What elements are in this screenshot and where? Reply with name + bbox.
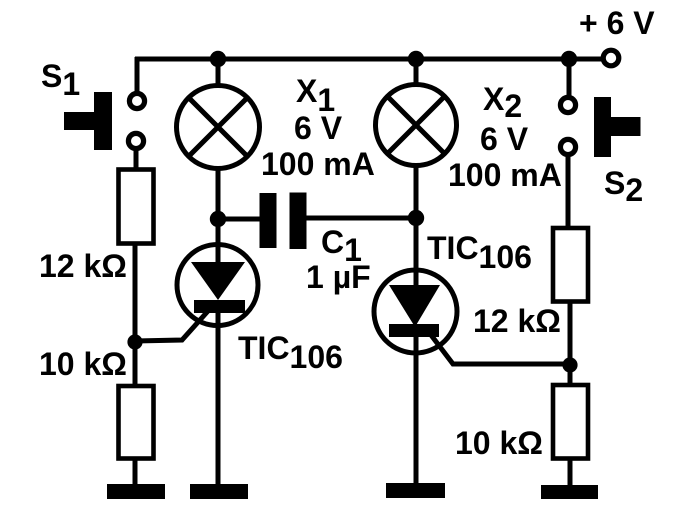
svg-text:12 kΩ: 12 kΩ <box>39 248 127 284</box>
svg-text:6 V: 6 V <box>480 121 529 157</box>
svg-text:10 kΩ: 10 kΩ <box>455 425 543 461</box>
svg-text:100 mA: 100 mA <box>448 157 562 193</box>
svg-text:6 V: 6 V <box>294 110 343 146</box>
svg-text:1 µF: 1 µF <box>306 259 371 295</box>
svg-text:10 kΩ: 10 kΩ <box>39 346 127 382</box>
svg-text:100 mA: 100 mA <box>261 146 375 182</box>
svg-text:+ 6 V: + 6 V <box>579 5 655 41</box>
svg-text:12 kΩ: 12 kΩ <box>473 303 561 339</box>
